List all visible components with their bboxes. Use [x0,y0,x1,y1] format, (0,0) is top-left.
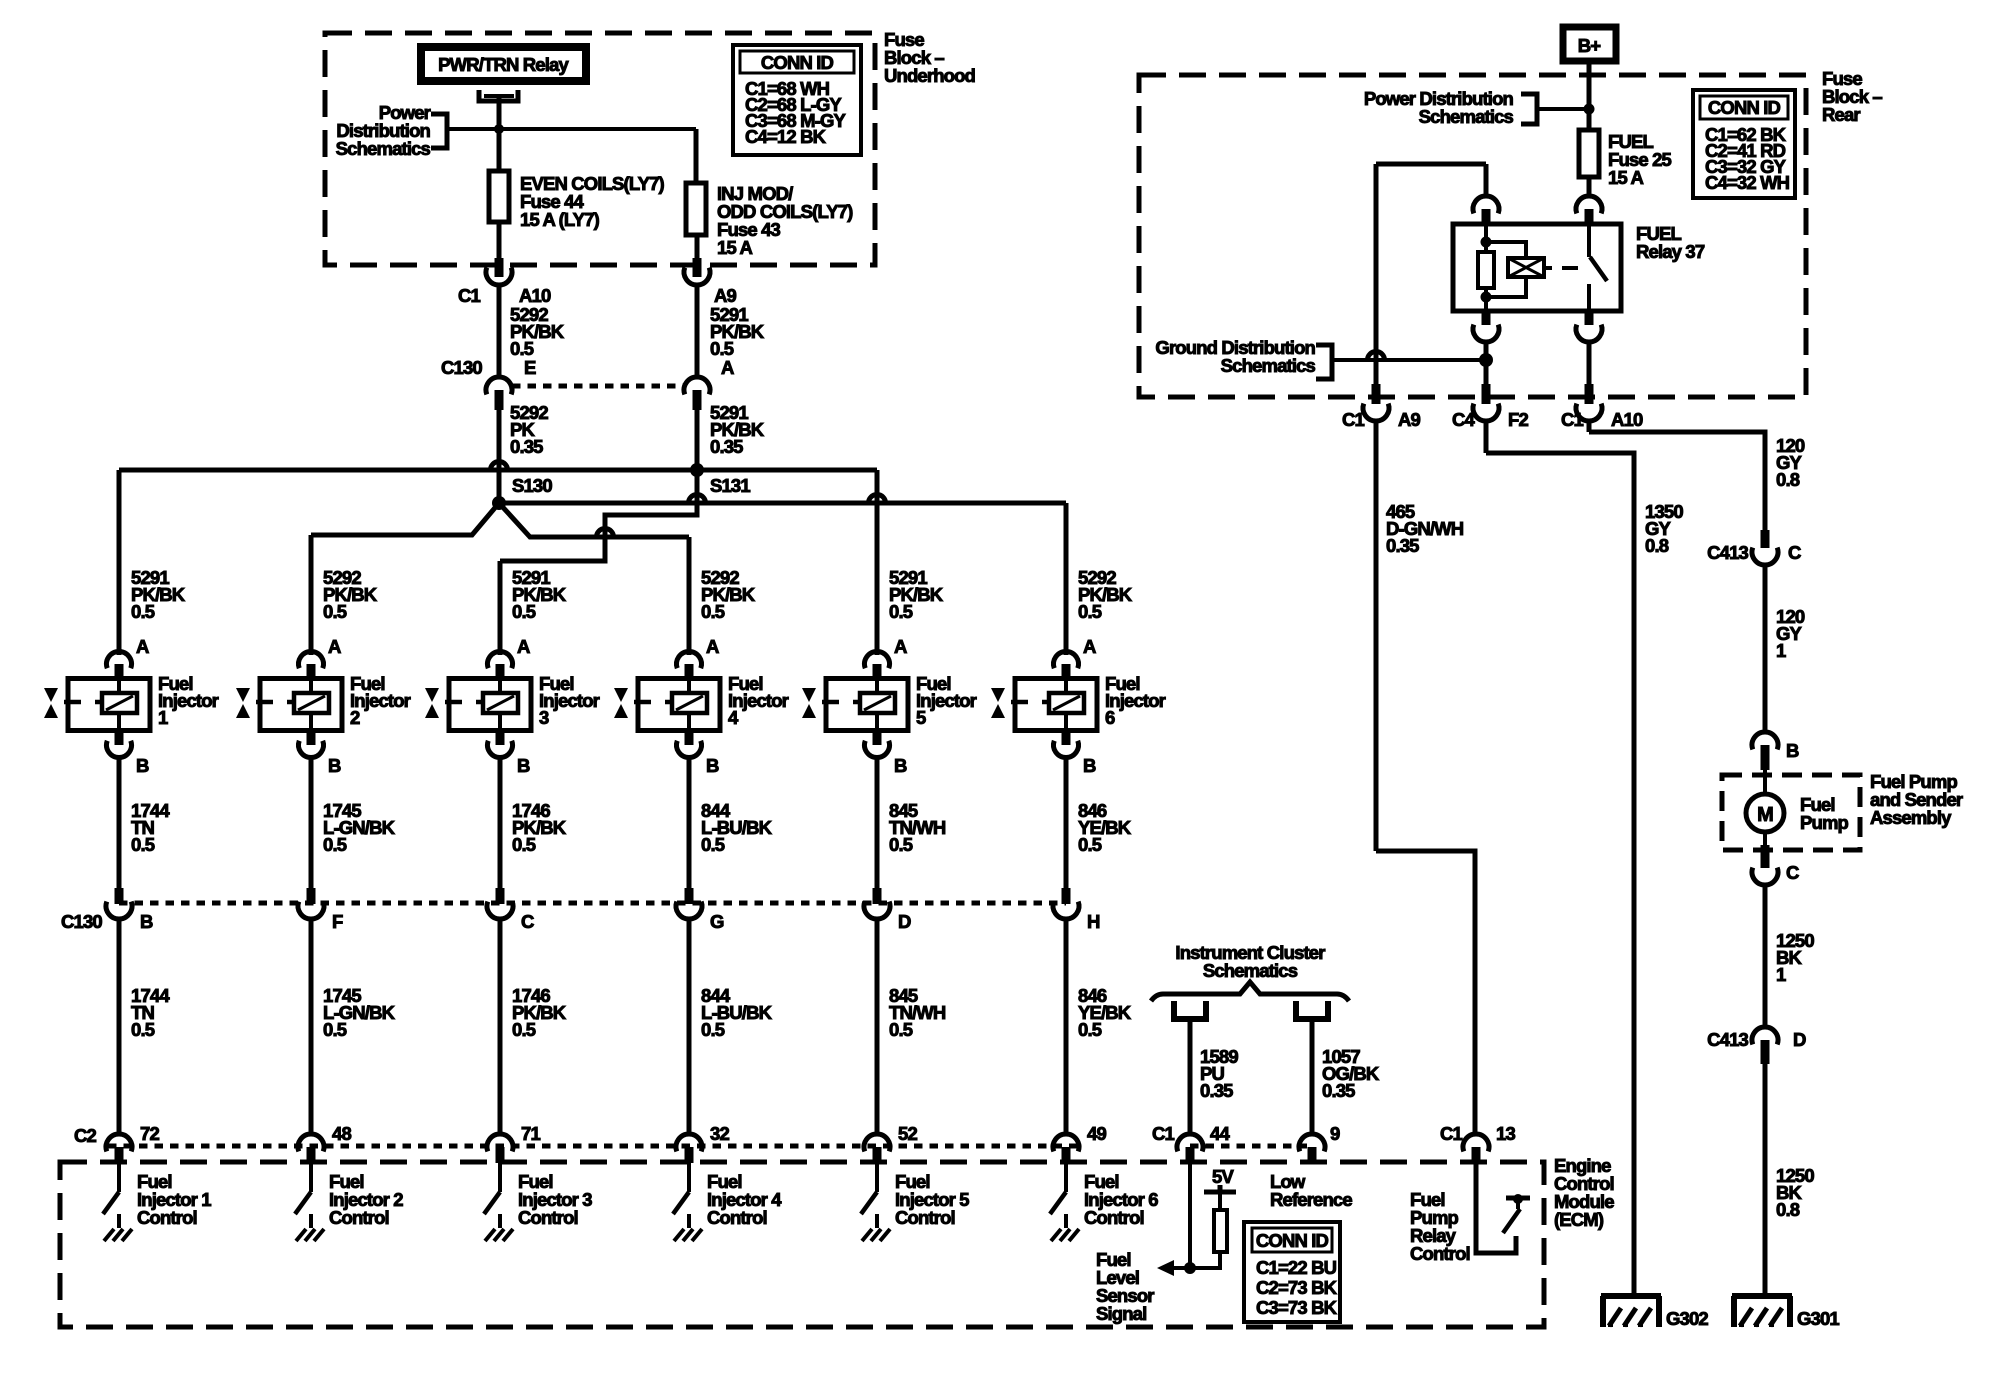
connector ECM C1 pin 13 [1440,1123,1515,1163]
svg-text:C: C [1786,862,1799,883]
svg-text:Control: Control [137,1207,197,1228]
splice S131 [690,463,750,496]
wire 846 YE/BK 0.5 (lower) [1066,918,1132,1135]
svg-text:13: 13 [1496,1123,1515,1144]
wire label 5292 PK/BK 0.5 (injector 2 feed) [323,567,378,622]
connector ECM C2 pin 49 [1053,1123,1106,1163]
even injector bus wire (S130 line) [499,501,1066,506]
svg-text:0.5: 0.5 [889,601,913,622]
svg-text:C413: C413 [1707,542,1748,563]
svg-text:48: 48 [332,1123,351,1144]
svg-text:B: B [706,755,719,776]
ground G301 [1732,1296,1839,1329]
engine control module enclosure [60,1162,1544,1327]
wire 1745 L-GN/BK 0.5 (upper) [311,756,396,889]
connector ECM C2 pin 72 [106,1123,159,1163]
connector C130 E [441,357,536,410]
svg-text:0.8: 0.8 [1776,1199,1800,1220]
svg-text:C4: C4 [1452,409,1476,430]
svg-text:0.5: 0.5 [323,834,347,855]
svg-text:0.5: 0.5 [889,834,913,855]
svg-text:49: 49 [1087,1123,1106,1144]
svg-text:9: 9 [1330,1123,1340,1144]
conn id table ECM [1244,1222,1340,1322]
svg-text:0.5: 0.5 [131,834,155,855]
instrument cluster connector (left) [1174,1001,1206,1019]
svg-text:Control: Control [518,1207,578,1228]
power distribution schematics reference (underhood) [336,102,499,159]
svg-text:Control: Control [329,1207,389,1228]
svg-text:CONN ID: CONN ID [761,52,834,73]
svg-text:0.35: 0.35 [710,436,743,457]
fuse F25 FUEL 15A [1579,130,1672,188]
svg-text:A: A [1083,636,1096,657]
relay coil pin connector (bottom left) [1473,311,1499,342]
connector pin A of injector 1 [106,636,149,679]
svg-text:0.5: 0.5 [701,834,725,855]
PWR/TRN relay terminal bracket [479,90,518,101]
svg-text:0.5: 0.5 [710,338,734,359]
power distribution schematics reference (rear) [1364,88,1589,127]
svg-text:D: D [898,911,911,932]
svg-text:F: F [332,911,343,932]
relay switch pin connector (top right) [1576,196,1602,224]
wire 1589 PU 0.35 [1190,1019,1238,1135]
connector ECM C1 pin 44 [1152,1123,1230,1163]
instrument cluster connector (right) [1296,1001,1328,1019]
wire 1350 GY 0.8 to ground G302 [1486,420,1683,1296]
connector C4 F2 [1452,384,1528,430]
svg-text:B: B [140,911,153,932]
wire 844 L-BU/BK 0.5 (lower) [689,918,773,1135]
svg-text:G301: G301 [1797,1308,1839,1329]
svg-text:72: 72 [140,1123,159,1144]
connector C1 A10 [458,258,551,306]
junction B+ / power distribution [1584,104,1595,115]
wire 1057 OG/BK 0.35 [1312,1019,1380,1135]
svg-text:D: D [1793,1029,1806,1050]
svg-text:B: B [136,755,149,776]
svg-text:52: 52 [898,1123,917,1144]
svg-text:H: H [1087,911,1100,932]
connector pin A of injector 4 [676,636,719,679]
connector ECM C2 pin 32 [676,1123,729,1163]
svg-text:44: 44 [1210,1123,1230,1144]
svg-text:C413: C413 [1707,1029,1748,1050]
svg-text:S131: S131 [710,475,750,496]
svg-text:Control: Control [1084,1207,1144,1228]
svg-text:0.5: 0.5 [1078,1019,1102,1040]
wire 5292 PK/BK 0.5 [499,284,565,377]
svg-text:15 A: 15 A [717,237,752,258]
wire S130 to injector 4 [499,503,689,655]
wire label 5291 PK/BK 0.5 (injector 5 feed) [889,567,944,622]
connector C1 A9 (rear) [1342,384,1421,430]
odd injector bus wire (S131 line) [119,468,877,473]
svg-text:Control: Control [707,1207,767,1228]
wire B+ down to fuse 25 [1587,61,1592,130]
svg-text:(ECM): (ECM) [1554,1209,1604,1230]
wire 1746 PK/BK 0.5 (lower) [500,918,567,1135]
fuse block underhood enclosure [325,33,875,265]
ECM driver switch: fuel injector 3 control [484,1163,592,1241]
wire fuse43 to connector [695,235,700,260]
ground G302 [1601,1296,1708,1329]
svg-text:Assembly: Assembly [1870,807,1952,828]
connector pin B of injector 1 [106,730,149,776]
connector pin B of injector 3 [488,730,531,776]
connector pin A of injector 2 [299,636,342,679]
svg-text:0.35: 0.35 [1322,1080,1355,1101]
wire 845 TN/WH 0.5 (upper) [877,756,946,889]
label Fuel Pump and Sender Assembly [1870,771,1963,828]
fuel injector 4 [614,673,789,731]
svg-text:Pump: Pump [1800,812,1849,833]
svg-text:S130: S130 [512,475,552,496]
svg-text:5V: 5V [1212,1166,1234,1187]
svg-text:C1: C1 [1342,409,1365,430]
svg-text:C1=22 BU: C1=22 BU [1256,1257,1337,1278]
hop of injector4 feed over injector3 feed [597,529,614,538]
svg-text:Schematics: Schematics [1221,355,1316,376]
svg-text:5: 5 [916,707,926,728]
svg-text:B: B [894,755,907,776]
wire S130 to injector 2 [311,503,499,655]
ECM connector C1 dotted line [1190,1144,1312,1149]
svg-text:C3=73 BK: C3=73 BK [1256,1297,1338,1318]
wire fuse44 to connector [497,222,502,260]
fuel injector 2 [236,673,411,731]
svg-text:G302: G302 [1666,1308,1708,1329]
svg-text:1: 1 [158,707,168,728]
svg-text:C4=12 BK: C4=12 BK [745,126,827,147]
relay box PWR/TRN Relay [421,47,586,81]
svg-text:6: 6 [1105,707,1115,728]
wire 465 D-GN/WH 0.35 to ECM pin 13 [1376,420,1475,1135]
label S130 [512,475,552,496]
relay coil pin connector (top left) [1473,196,1499,224]
wire feed to fuse 43 [499,129,696,183]
wire relay coil feed (from left) [1376,164,1486,388]
wire S131 to injector 3 [500,470,697,655]
svg-text:Schematics: Schematics [1203,960,1298,981]
svg-text:Rear: Rear [1822,104,1860,125]
svg-text:0.35: 0.35 [1200,1080,1233,1101]
ECM driver switch: fuel injector 2 control [295,1163,403,1241]
connector C130 B [106,888,153,932]
connector pin B of injector 5 [865,730,907,776]
svg-text:C: C [1788,542,1801,563]
conn id table rear [1693,90,1795,198]
svg-text:0.35: 0.35 [1386,535,1419,556]
connector C130 G [676,888,724,932]
svg-text:Underhood: Underhood [884,65,976,86]
svg-text:B: B [517,755,530,776]
wire 1746 PK/BK 0.5 (upper) [500,756,567,889]
connector fuel pump C [1752,845,1799,885]
instrument cluster schematics reference [1151,942,1349,1001]
svg-text:Schematics: Schematics [336,138,431,159]
svg-text:A: A [517,636,530,657]
svg-text:71: 71 [521,1123,540,1144]
connector C130 D [864,888,911,932]
ECM driver switch: fuel injector 6 control [1050,1163,1158,1241]
hop of odd bus over 5292 wire [491,462,508,471]
ECM connector C2 dotted line [108,1144,1078,1149]
svg-text:0.5: 0.5 [131,601,155,622]
svg-text:CONN ID: CONN ID [1708,97,1781,118]
wire even bus corner to injector 6 [1064,503,1069,655]
svg-text:32: 32 [710,1123,729,1144]
fuel injector 6 [991,673,1166,731]
relay switch pin connector (bottom right) [1576,311,1602,342]
fuel injector 1 [44,673,219,731]
svg-text:Control: Control [895,1207,955,1228]
fuse F43 INJ MOD / ODD COILS [686,183,853,258]
svg-text:0.5: 0.5 [131,1019,155,1040]
svg-text:E: E [524,357,536,378]
svg-text:C1: C1 [458,285,481,306]
label Fuel Pump Relay Control [1410,1189,1470,1264]
label C130 (left of lower connector row) [61,911,102,932]
label Fuse Block Rear [1822,68,1882,125]
junction ground distribution / relay coil return [1479,340,1493,388]
fuel injector 5 [802,673,977,731]
fuse F44 EVEN COILS [489,171,665,230]
connector C130 F [298,888,343,932]
svg-text:0.5: 0.5 [1078,834,1102,855]
svg-text:A: A [328,636,341,657]
ground distribution schematics reference [1155,337,1486,379]
svg-text:Control: Control [1410,1243,1470,1264]
svg-text:C130: C130 [441,357,482,378]
wire 846 YE/BK 0.5 (upper) [1066,756,1132,889]
svg-text:Schematics: Schematics [1419,106,1514,127]
wire label 5292 PK/BK 0.5 (injector 4 feed) [701,567,756,622]
connector pin B of injector 4 [676,730,719,776]
ECM driver switch: fuel injector 1 control [103,1163,211,1241]
wire 5291 PK/BK 0.35 to splice S131 [697,402,765,470]
svg-text:A9: A9 [714,285,737,306]
svg-text:C1: C1 [1440,1123,1463,1144]
wire label 5291 PK/BK 0.5 (injector 1 feed) [131,567,186,622]
wire label 5292 PK/BK 0.5 (injector 6 feed) [1078,567,1133,622]
connector C1 A10 (rear) [1561,384,1643,430]
svg-text:PWR/TRN Relay: PWR/TRN Relay [438,54,569,75]
splice S130 [492,496,506,510]
connector pin B of injector 6 [1054,730,1097,776]
conn id table underhood [733,45,861,155]
connector ECM C2 pin 52 [864,1123,917,1163]
svg-text:0.5: 0.5 [889,1019,913,1040]
connector ECM C1 pin 9 [1299,1123,1340,1163]
wire 1745 L-GN/BK 0.5 (lower) [311,918,396,1135]
label Engine Control Module (ECM) [1554,1155,1614,1230]
svg-text:C1: C1 [1152,1123,1175,1144]
wire 5291 PK/BK 0.5 [697,284,765,377]
svg-text:0.35: 0.35 [510,436,543,457]
connector C130 H [1053,888,1100,932]
wire odd bus corner to injector 5 [875,470,880,655]
svg-text:1: 1 [1776,640,1786,661]
wire fuse 25 to relay [1587,177,1592,197]
wire 1744 TN 0.5 (upper) [119,756,170,889]
junction at relay feed [494,124,504,134]
wire pin 44 to fuel level sensor signal [1184,1163,1196,1274]
svg-text:0.8: 0.8 [1645,535,1669,556]
svg-text:C: C [521,911,534,932]
5V supply with pull-up resistor [1190,1166,1236,1268]
svg-text:C130: C130 [61,911,102,932]
svg-text:A: A [706,636,719,657]
wire 120 GY 1 to fuel pump [1765,564,1805,733]
svg-text:0.5: 0.5 [512,601,536,622]
svg-text:C2=73 BK: C2=73 BK [1256,1277,1338,1298]
fuse block rear enclosure [1139,75,1806,397]
connector C130 A [684,357,734,410]
svg-text:0.5: 0.5 [323,1019,347,1040]
hop of ground reference over relay feed wire [1368,352,1385,361]
connector ECM C2 pin 48 [298,1123,351,1163]
label C2 (ECM connector row) [74,1125,97,1146]
svg-text:0.5: 0.5 [701,601,725,622]
wire 5292 PK 0.35 to splice S130 [499,402,548,503]
svg-text:Reference: Reference [1270,1189,1352,1210]
C130 lower connector dashed line [119,901,1066,906]
wire 844 L-BU/BK 0.5 (upper) [689,756,773,889]
svg-text:A10: A10 [519,285,551,306]
svg-text:B: B [1083,755,1096,776]
svg-text:A: A [136,636,149,657]
svg-text:A9: A9 [1398,409,1421,430]
svg-text:3: 3 [539,707,549,728]
C130 connector dashed line (top) [512,384,685,389]
fuel pump motor [1746,770,1784,845]
svg-text:0.5: 0.5 [1078,601,1102,622]
connector C413 C [1707,530,1801,565]
connector pin B of injector 2 [299,730,342,776]
svg-text:C4=32 WH: C4=32 WH [1705,172,1790,193]
svg-text:1: 1 [1776,964,1786,985]
ECM fuel pump relay driver switch [1476,1163,1530,1253]
svg-text:B: B [328,755,341,776]
connector pin A of injector 6 [1054,636,1097,679]
svg-text:15 A: 15 A [1608,167,1643,188]
label FUEL Relay 37 [1636,223,1705,262]
label Low Reference [1270,1171,1352,1210]
relay FUEL Relay 37 [1453,224,1621,311]
wire 1250 BK 0.8 to ground G301 [1765,1064,1814,1296]
svg-text:2: 2 [350,707,360,728]
svg-text:A: A [894,636,907,657]
label Fuse Block Underhood [884,29,976,86]
svg-text:B+: B+ [1578,35,1602,56]
svg-text:0.5: 0.5 [323,601,347,622]
connector pin A of injector 5 [865,636,907,679]
label Fuel Pump [1800,794,1849,833]
svg-text:C1: C1 [1561,409,1584,430]
wire odd bus corner to injector 1 [117,470,122,655]
connector C1 A9 [684,258,737,306]
connector fuel pump B [1752,732,1799,770]
svg-text:CONN ID: CONN ID [1256,1230,1329,1251]
svg-text:F2: F2 [1508,409,1528,430]
battery feed B+ [1563,27,1616,61]
svg-text:Signal: Signal [1096,1303,1146,1324]
svg-text:A: A [721,357,734,378]
connector ECM C2 pin 71 [487,1123,540,1163]
svg-text:0.5: 0.5 [512,834,536,855]
svg-text:0.5: 0.5 [510,338,534,359]
svg-text:0.5: 0.5 [701,1019,725,1040]
svg-text:G: G [710,911,724,932]
wire 1744 TN 0.5 (lower) [119,918,170,1135]
svg-text:4: 4 [728,707,739,728]
wire relay switch to A10 [1587,340,1592,388]
svg-text:0.8: 0.8 [1776,469,1800,490]
svg-text:M: M [1757,804,1773,826]
svg-text:A10: A10 [1611,409,1643,430]
ECM driver switch: fuel injector 4 control [673,1163,782,1241]
connector pin A of injector 3 [488,636,531,679]
svg-text:C2: C2 [74,1125,97,1146]
wire 1250 BK 1 to C413 D [1765,884,1814,1028]
wire from PWR/TRN relay down [497,96,502,171]
fuel pump and sender assembly enclosure [1722,775,1860,850]
connector C130 C [487,888,534,932]
svg-text:B: B [1786,740,1799,761]
wire label 5291 PK/BK 0.5 (injector 3 feed) [512,567,567,622]
fuel injector 3 [425,673,600,731]
hop of even bus over injector5 feed [869,495,886,504]
svg-text:Relay 37: Relay 37 [1636,241,1705,262]
wire 845 TN/WH 0.5 (lower) [877,918,946,1135]
fuel level sensor signal arrow [1096,1249,1190,1324]
connector C413 D [1707,1027,1806,1064]
hop of even bus over S131 branch [689,495,706,504]
ECM driver switch: fuel injector 5 control [861,1163,969,1241]
svg-text:15 A (LY7): 15 A (LY7) [520,209,600,230]
wire 120 GY 0.8 to C413 [1589,420,1805,532]
svg-text:0.5: 0.5 [512,1019,536,1040]
